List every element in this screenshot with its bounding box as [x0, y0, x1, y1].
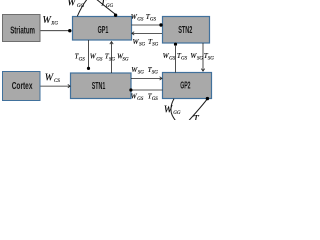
wire GP2 to STN1	[133, 89, 163, 91]
dot synapse GP1 self-loop	[114, 14, 117, 17]
label W_GS T_GS	[131, 13, 157, 23]
svg-text:SG: SG	[208, 56, 215, 61]
svg-text:CS: CS	[54, 79, 60, 84]
arrowhead at GP1 bottom	[110, 42, 113, 45]
arrowhead at GP1	[132, 32, 134, 35]
wire GP1 to STN2	[132, 24, 161, 26]
self-loop GP1	[77, 0, 88, 16]
label T_GG	[193, 114, 206, 126]
wire STN1 to GP2	[131, 77, 162, 79]
label W_GG	[164, 104, 181, 116]
wire STN2 to GP1	[132, 32, 162, 34]
dot synapse GP2-STN1	[129, 88, 132, 91]
label W_SG T_SG	[133, 38, 159, 48]
svg-text:Cortex: Cortex	[12, 81, 33, 92]
dot synapse GP1-STN1	[87, 67, 90, 70]
svg-text:STN2: STN2	[178, 25, 192, 36]
label W_GS T_GS	[163, 52, 188, 62]
svg-text:GG: GG	[77, 4, 85, 9]
box STN1	[71, 73, 132, 99]
svg-text:SG: SG	[139, 43, 146, 48]
svg-text:SG: SG	[109, 58, 116, 63]
svg-text:STN1: STN1	[92, 81, 106, 92]
box Striatum	[3, 15, 41, 42]
self-loop GP2 right branch	[188, 99, 207, 122]
wire STN1 up to GP1	[111, 42, 113, 73]
svg-text:GS: GS	[150, 17, 157, 22]
svg-text:SG: SG	[122, 58, 128, 63]
svg-text:GS: GS	[181, 56, 188, 61]
dot synapse GP2 self-loop	[206, 97, 209, 100]
wire Cortex to STN1	[41, 85, 70, 87]
label W_CS	[45, 72, 61, 84]
box STN2	[163, 17, 210, 44]
svg-text:Striatum: Striatum	[10, 25, 35, 36]
svg-text:GG: GG	[106, 4, 114, 9]
label W_SG T_SG	[190, 52, 214, 62]
label T_SG W_SG	[105, 53, 129, 63]
label T_GS W_GS	[75, 53, 103, 63]
svg-text:GS: GS	[96, 58, 103, 63]
arrowhead at STN1	[68, 84, 70, 87]
label W_XG	[43, 15, 59, 27]
wire GP1 down to STN1	[88, 40, 90, 67]
svg-text:GS: GS	[169, 56, 176, 61]
svg-text:SG: SG	[152, 43, 159, 48]
dot synapse GP1-STN2	[159, 23, 162, 26]
wire STN2 down to GP2	[202, 43, 204, 71]
svg-text:GS: GS	[137, 97, 144, 102]
box GP1	[73, 17, 132, 41]
label W_GS T_GS	[131, 93, 159, 103]
svg-text:SG: SG	[138, 70, 145, 75]
arrowhead at GP2	[160, 77, 162, 80]
box Cortex	[3, 72, 41, 101]
self-loop GP2 left branch	[171, 99, 177, 123]
arrowhead at GP2 top	[201, 69, 204, 72]
label T_GG	[100, 0, 113, 9]
svg-text:SG: SG	[197, 56, 204, 61]
svg-text:SG: SG	[152, 70, 159, 75]
svg-text:GS: GS	[79, 58, 86, 63]
svg-text:XG: XG	[50, 22, 58, 27]
dot synapse Striatum-GP1	[68, 29, 71, 32]
box GP2	[163, 73, 212, 99]
dot synapse GP2-STN2	[174, 43, 177, 46]
svg-text:GG: GG	[173, 111, 181, 116]
svg-text:GS: GS	[137, 17, 144, 22]
svg-text:GP2: GP2	[180, 80, 190, 91]
svg-text:GS: GS	[152, 97, 159, 102]
wire Striatum to GP1	[41, 30, 69, 32]
label W_GG	[67, 0, 84, 9]
label W_SG T_SG	[131, 66, 158, 76]
svg-text:GP1: GP1	[98, 25, 109, 36]
wire GP2 up to STN2	[175, 46, 177, 73]
